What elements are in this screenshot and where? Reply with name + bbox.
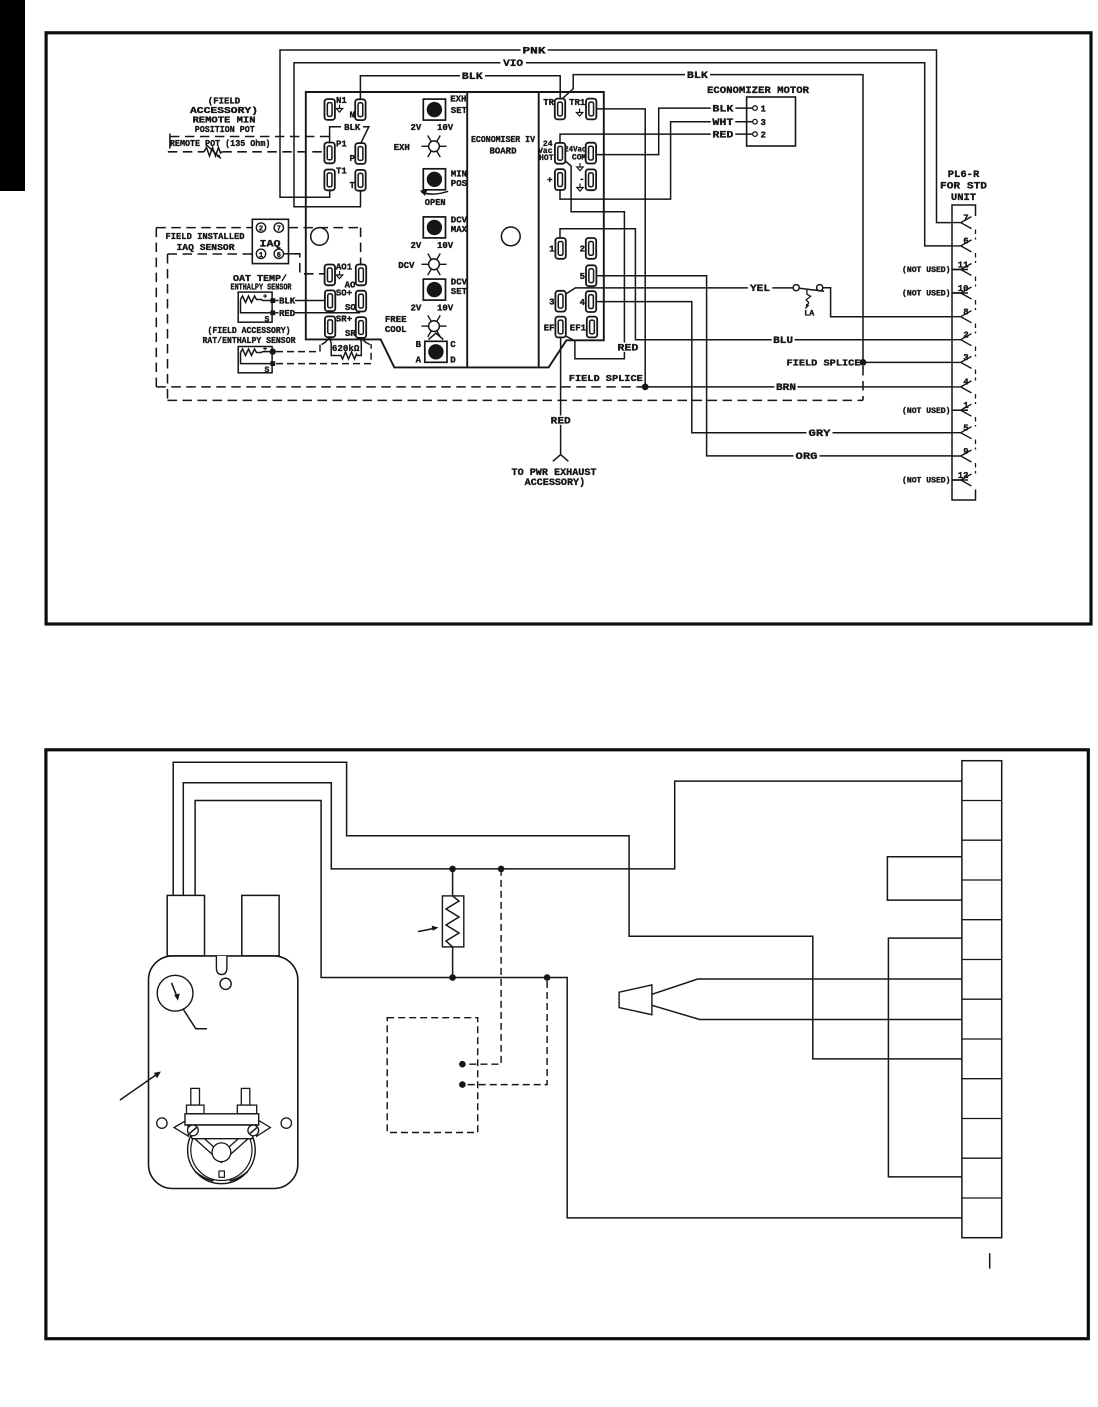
svg-text:ORG: ORG [796, 452, 818, 463]
svg-text:N: N [350, 111, 355, 121]
svg-text:4: 4 [580, 298, 586, 308]
svg-text:7: 7 [963, 213, 968, 223]
svg-text:T1: T1 [336, 167, 347, 177]
svg-text:+: + [263, 346, 267, 354]
svg-text:IAQ: IAQ [260, 240, 281, 251]
svg-text:D: D [450, 355, 456, 365]
svg-text:2V: 2V [411, 241, 422, 251]
svg-text:9: 9 [963, 447, 968, 457]
svg-text:POSITION POT: POSITION POT [195, 125, 256, 135]
svg-text:RED: RED [712, 130, 733, 141]
svg-text:RAT/ENTHALPY SENSOR: RAT/ENTHALPY SENSOR [203, 336, 297, 346]
svg-text:EF: EF [544, 323, 555, 333]
svg-text:A: A [416, 355, 422, 365]
svg-text:2: 2 [259, 226, 263, 234]
svg-text:6: 6 [277, 252, 281, 260]
svg-text:BLK: BLK [462, 72, 483, 83]
svg-text:3: 3 [549, 298, 554, 308]
svg-text:WHT: WHT [712, 118, 733, 129]
svg-text:(NOT USED): (NOT USED) [902, 266, 951, 275]
svg-text:UNIT: UNIT [951, 192, 976, 204]
svg-text:7: 7 [277, 226, 281, 234]
svg-text:FREE: FREE [385, 315, 407, 325]
svg-text:3: 3 [761, 118, 766, 128]
svg-text:EXH: EXH [394, 143, 410, 153]
svg-text:S: S [265, 366, 270, 375]
svg-text:BRN: BRN [776, 383, 796, 394]
svg-text:PNK: PNK [523, 46, 546, 57]
svg-text:LA: LA [804, 310, 814, 319]
svg-text:HOT: HOT [539, 154, 554, 163]
svg-text:SET: SET [451, 287, 468, 297]
svg-text:EXH: EXH [450, 94, 466, 104]
svg-text:DCV: DCV [451, 215, 468, 225]
svg-text:FIELD INSTALLED: FIELD INSTALLED [166, 232, 246, 242]
svg-text:BLK: BLK [712, 104, 733, 115]
svg-text:BLU: BLU [773, 336, 793, 347]
svg-text:RED: RED [617, 343, 638, 354]
svg-text:620kΩ: 620kΩ [332, 344, 360, 354]
svg-text:EF1: EF1 [570, 323, 587, 333]
svg-text:IAQ SENSOR: IAQ SENSOR [177, 243, 236, 253]
svg-text:1: 1 [761, 104, 767, 114]
svg-text:2: 2 [761, 130, 766, 140]
svg-text:FIELD SPLICE: FIELD SPLICE [569, 374, 644, 384]
svg-text:(NOT USED): (NOT USED) [902, 290, 951, 299]
svg-text:DCV: DCV [398, 261, 415, 271]
svg-text:2: 2 [580, 245, 585, 255]
svg-text:DCV: DCV [451, 277, 468, 287]
svg-text:N1: N1 [336, 96, 347, 106]
svg-text:TR: TR [543, 98, 554, 108]
svg-text:VIO: VIO [503, 59, 523, 70]
svg-text:SR+: SR+ [336, 314, 352, 324]
svg-text:6: 6 [963, 237, 968, 247]
svg-text:TR1: TR1 [569, 98, 586, 108]
svg-text:+: + [263, 294, 267, 302]
svg-text:(FIELD ACCESSORY): (FIELD ACCESSORY) [208, 326, 291, 336]
svg-text:ENTHALPY SENSOR: ENTHALPY SENSOR [231, 282, 292, 292]
svg-text:C: C [450, 340, 456, 350]
svg-text:REMOTE POT (135 Ohm): REMOTE POT (135 Ohm) [170, 139, 271, 149]
svg-text:COM: COM [572, 154, 587, 163]
svg-text:FIELD SPLICE: FIELD SPLICE [787, 359, 862, 369]
svg-text:SO+: SO+ [336, 289, 352, 299]
svg-text:5: 5 [580, 272, 585, 282]
svg-text:ACCESSORY): ACCESSORY) [525, 477, 586, 489]
svg-text:2V: 2V [411, 123, 422, 133]
svg-text:BOARD: BOARD [489, 147, 517, 157]
svg-text:BLK: BLK [279, 297, 296, 307]
svg-text:B: B [416, 340, 422, 350]
svg-text:2V: 2V [411, 303, 422, 313]
svg-text:GRY: GRY [809, 429, 831, 440]
svg-text:(NOT USED): (NOT USED) [902, 407, 951, 416]
svg-text:SET: SET [451, 106, 468, 116]
svg-text:MIN: MIN [451, 169, 467, 179]
svg-text:RED: RED [551, 416, 571, 427]
svg-text:SO: SO [345, 303, 356, 313]
svg-text:T: T [350, 181, 356, 191]
svg-text:(FIELD: (FIELD [208, 97, 241, 107]
svg-text:S: S [265, 315, 270, 324]
svg-text:BLK: BLK [344, 123, 361, 133]
svg-text:ECONOMIZER MOTOR: ECONOMIZER MOTOR [707, 85, 810, 97]
svg-text:1: 1 [259, 252, 263, 260]
svg-text:10V: 10V [437, 241, 454, 251]
svg-text:YEL: YEL [750, 284, 770, 295]
svg-text:ECONOMISER IV: ECONOMISER IV [471, 135, 536, 145]
svg-text:4: 4 [963, 378, 969, 388]
svg-text:BLK: BLK [687, 71, 708, 82]
svg-text:1: 1 [549, 245, 555, 255]
svg-text:5: 5 [963, 424, 968, 434]
svg-text:3: 3 [963, 353, 968, 363]
svg-text:PL6-R: PL6-R [948, 169, 980, 181]
svg-text:+: + [547, 176, 552, 186]
svg-text:OPEN: OPEN [425, 198, 446, 208]
svg-text:10V: 10V [437, 123, 454, 133]
svg-text:(NOT USED): (NOT USED) [902, 477, 951, 486]
svg-text:POS: POS [451, 179, 468, 189]
svg-text:P: P [350, 154, 356, 164]
svg-text:RED: RED [279, 309, 296, 319]
svg-text:AO1: AO1 [336, 263, 353, 273]
svg-text:MAX: MAX [451, 225, 468, 235]
svg-text:P1: P1 [336, 140, 347, 150]
svg-text:FOR STD: FOR STD [940, 181, 987, 193]
svg-text:2: 2 [963, 331, 968, 341]
svg-text:SR: SR [345, 329, 356, 339]
svg-text:COOL: COOL [385, 325, 407, 335]
svg-text:10V: 10V [437, 303, 454, 313]
svg-text:8: 8 [963, 308, 968, 318]
